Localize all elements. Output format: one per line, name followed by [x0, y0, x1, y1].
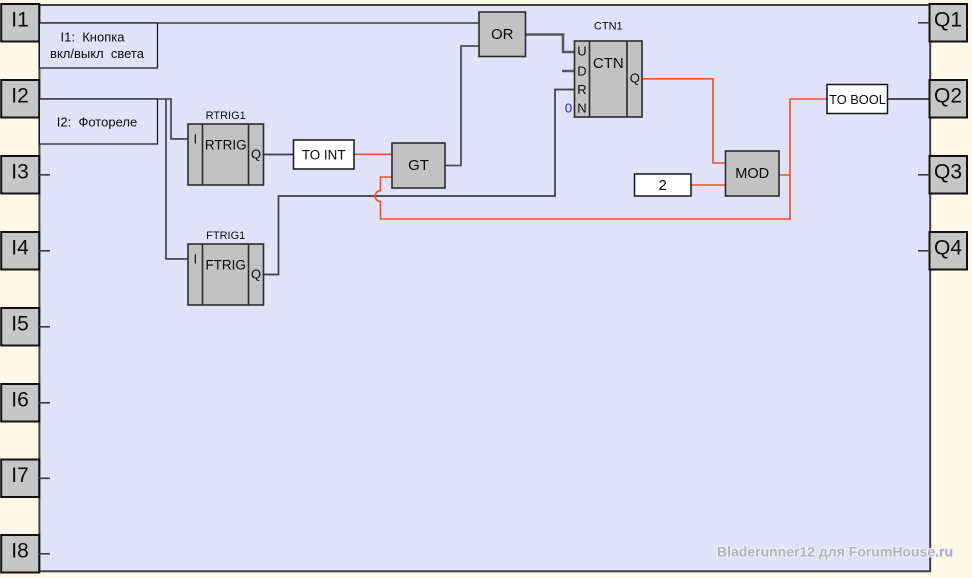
input I6	[1, 384, 50, 422]
wire MOD output feedback to GT input2 with hop (red)	[375, 175, 790, 219]
svg-text:MOD: MOD	[735, 166, 769, 182]
svg-text:N: N	[577, 100, 586, 115]
svg-text:Q1: Q1	[934, 9, 962, 32]
input I7	[1, 460, 50, 498]
svg-text:I3: I3	[11, 161, 29, 184]
svg-text:I7: I7	[11, 464, 29, 487]
svg-text:TO BOOL: TO BOOL	[829, 92, 886, 107]
input I4	[1, 232, 50, 270]
svg-text:GT: GT	[408, 157, 429, 174]
wire I2 branch to FTRIG1 input I	[166, 98, 188, 259]
output Q3	[918, 156, 967, 194]
svg-text:D: D	[577, 63, 586, 78]
converter TO INT	[294, 140, 355, 169]
svg-text:I: I	[193, 131, 197, 146]
wire MOD output to TO BOOL input (red)	[779, 99, 827, 175]
trigger block RTRIG1	[188, 110, 264, 185]
svg-text:I1: I1	[11, 9, 29, 32]
input I1	[1, 4, 39, 42]
wire RTRIG1 Q to TO INT input	[264, 154, 294, 156]
svg-text:U: U	[577, 44, 586, 59]
input I8	[1, 535, 50, 573]
svg-text:I1: Кнопка: I1: Кнопка	[61, 30, 126, 45]
svg-text:Q: Q	[630, 71, 640, 86]
arithmetic MOD	[726, 151, 780, 196]
output Q2	[930, 80, 968, 118]
svg-text:I6: I6	[11, 389, 29, 412]
input I3	[1, 156, 50, 194]
svg-text:Q: Q	[251, 146, 261, 161]
svg-text:CTN: CTN	[593, 55, 624, 72]
svg-text:Q2: Q2	[934, 85, 962, 108]
svg-text:I2: Фотореле: I2: Фотореле	[57, 114, 137, 129]
wire CTN1 Q to MOD input1 (red)	[642, 79, 726, 163]
svg-text:I5: I5	[11, 313, 29, 336]
counter CTN1	[565, 21, 642, 118]
svg-text:Q4: Q4	[934, 237, 962, 260]
wire I2 trunk	[39, 98, 172, 100]
wire I2 branch to RTRIG1 input I	[171, 98, 188, 139]
constant 2	[635, 174, 692, 196]
wire OR output to CTN1 input U	[526, 35, 575, 53]
op block OR	[479, 12, 526, 57]
svg-text:OR: OR	[491, 26, 514, 43]
svg-text:CTN1: CTN1	[594, 21, 623, 33]
output Q4	[918, 232, 967, 270]
svg-text:2: 2	[659, 177, 667, 194]
svg-text:0: 0	[565, 100, 572, 115]
wire FTRIG1 Q to CTN1 input R	[264, 90, 575, 275]
wire TO BOOL output to Q2	[888, 98, 930, 100]
converter TO BOOL	[827, 85, 888, 114]
svg-text:Q3: Q3	[934, 161, 962, 184]
wire constant 2 to MOD input2 (red)	[691, 184, 726, 186]
svg-text:вкл/выкл света: вкл/выкл света	[50, 46, 145, 61]
svg-text:I2: I2	[11, 85, 29, 108]
comment box I2	[39, 99, 157, 144]
output Q1	[918, 4, 967, 42]
svg-text:Q: Q	[251, 266, 261, 281]
comparator GT	[392, 143, 445, 188]
svg-text:RTRIG: RTRIG	[205, 138, 247, 153]
wire TO INT output to GT input1 (red)	[354, 153, 392, 155]
svg-text:Bladerunner12 для ForumHouse.r: Bladerunner12 для ForumHouse.ru	[717, 544, 953, 560]
svg-text:RTRIG1: RTRIG1	[206, 110, 246, 122]
wire I1 to OR input1	[39, 22, 480, 24]
wire stub CTN1 input D	[562, 70, 575, 73]
svg-text:R: R	[577, 82, 586, 97]
input I2	[1, 80, 39, 118]
wire GT output to OR input2	[445, 46, 479, 166]
trigger block FTRIG1	[188, 230, 264, 305]
svg-text:TO INT: TO INT	[302, 147, 346, 162]
svg-text:I: I	[193, 251, 197, 266]
comment box I1	[39, 23, 157, 68]
svg-text:I8: I8	[11, 540, 29, 563]
svg-text:I4: I4	[11, 237, 29, 260]
svg-text:FTRIG: FTRIG	[205, 258, 246, 273]
input I5	[1, 308, 50, 346]
svg-text:FTRIG1: FTRIG1	[206, 230, 245, 242]
